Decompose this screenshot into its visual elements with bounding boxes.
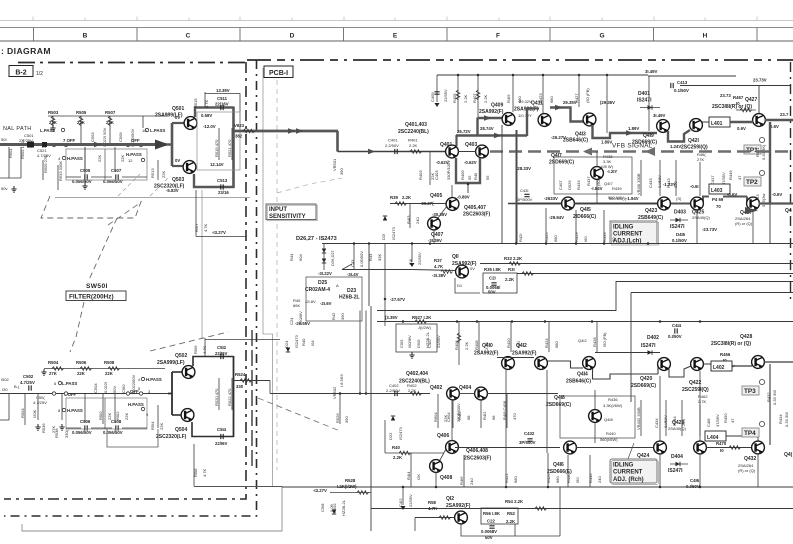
arrow 1.89V bbox=[626, 130, 634, 136]
svg-text:R436: R436 bbox=[608, 397, 618, 402]
svg-text:Q420: Q420 bbox=[640, 376, 652, 382]
resistor R440 bbox=[600, 431, 618, 442]
svg-text:Q42I: Q42I bbox=[688, 138, 699, 144]
resistor R511 vertical label bbox=[120, 155, 125, 162]
resistor R444 vert bbox=[672, 416, 686, 426]
VR401 vertical bbox=[636, 160, 641, 196]
transistor Q405 bbox=[446, 198, 459, 211]
svg-text:C503: C503 bbox=[90, 132, 95, 142]
svg-text:R5I4: R5I4 bbox=[150, 421, 155, 430]
resistor R518 vert bbox=[193, 444, 207, 486]
svg-text:R4I2: R4I2 bbox=[482, 411, 487, 420]
svg-text:R515: R515 bbox=[193, 98, 198, 108]
diode D21 vert bbox=[381, 216, 396, 240]
svg-text:L.PASS: L.PASS bbox=[40, 128, 55, 133]
ground under box bbox=[409, 352, 414, 358]
svg-text:1/2: 1/2 bbox=[36, 71, 43, 77]
svg-text:R5I7: R5I7 bbox=[194, 223, 199, 232]
svg-text:0V: 0V bbox=[470, 266, 475, 271]
resistor R510L vertical label bbox=[97, 155, 102, 162]
svg-text:Q402,404: Q402,404 bbox=[406, 371, 428, 377]
wire Q405-Q407 bbox=[438, 206, 447, 218]
wire R407col to Q413 bbox=[606, 75, 608, 133]
svg-text:50V: 50V bbox=[488, 290, 496, 295]
arrow to Q409 bbox=[484, 115, 492, 121]
outer lower box bbox=[107, 429, 158, 447]
svg-text:22K: 22K bbox=[161, 171, 166, 178]
Q424 emitter drop bbox=[659, 454, 661, 487]
transistor Q427 bbox=[753, 114, 766, 127]
svg-text:22/16V: 22/16V bbox=[215, 102, 229, 107]
svg-text:Q4I2: Q4I2 bbox=[516, 343, 527, 349]
svg-text:I0: I0 bbox=[720, 448, 724, 453]
cap C409 column bbox=[430, 75, 448, 107]
lower wires bbox=[0, 394, 147, 428]
zener box bbox=[306, 277, 362, 321]
svg-text:0.I/50V: 0.I/50V bbox=[668, 334, 682, 339]
TP3 test point bbox=[742, 379, 765, 395]
emitter col R411 bbox=[473, 173, 490, 180]
grid reference band bbox=[0, 28, 793, 42]
horizontal link y486 bbox=[194, 486, 282, 488]
cap C507 bbox=[103, 168, 123, 184]
resistor R513 vertical bbox=[150, 160, 166, 180]
cap C521 bbox=[37, 142, 51, 158]
svg-text:C4I4: C4I4 bbox=[672, 323, 682, 328]
wire vertical x85 bbox=[84, 147, 86, 183]
base col caps C403 bbox=[418, 152, 451, 185]
svg-text:27K: 27K bbox=[697, 157, 704, 162]
cap C21 bbox=[486, 276, 501, 295]
resistor R453 vertical bbox=[755, 194, 766, 207]
resistor R401 bbox=[408, 138, 422, 154]
VFB signal dashed trace bbox=[490, 150, 793, 153]
svg-text:R44: R44 bbox=[289, 253, 294, 261]
svg-text:2SD669(C): 2SD669(C) bbox=[549, 160, 574, 166]
svg-text:D402: D402 bbox=[647, 335, 659, 341]
rail 31.49V bbox=[645, 69, 736, 76]
svg-text:IS247I: IS247I bbox=[668, 468, 683, 474]
resistor R432 vertical bbox=[766, 390, 777, 405]
svg-text:560(I/6W): 560(I/6W) bbox=[600, 437, 618, 442]
svg-text:IS2473: IS2473 bbox=[391, 227, 396, 240]
svg-text:28.74V: 28.74V bbox=[480, 126, 494, 131]
svg-text:-12.0V: -12.0V bbox=[203, 124, 216, 129]
transistor Q418 bbox=[589, 410, 602, 423]
top loop bbox=[193, 357, 234, 367]
transistor Q422 bbox=[691, 358, 704, 371]
wire Q401-Q403 bbox=[458, 151, 476, 153]
VR502 labels bbox=[332, 374, 344, 399]
wire Q422-L402 bbox=[703, 363, 711, 365]
resistor R405 column bbox=[452, 75, 468, 132]
svg-text:Q427: Q427 bbox=[745, 97, 757, 103]
R56 box bbox=[481, 508, 518, 524]
cap C604 vert bbox=[446, 403, 461, 422]
switch H.PASS bbox=[58, 408, 83, 413]
svg-text:680: 680 bbox=[549, 96, 554, 103]
svg-text:-0.6I: -0.6I bbox=[690, 184, 699, 189]
svg-text:(R) or (Q): (R) or (Q) bbox=[738, 468, 756, 473]
thick feedback seg bbox=[456, 134, 527, 136]
resistor R526 vert bbox=[335, 392, 349, 424]
wire bias feed down bbox=[201, 190, 203, 339]
thick collector loop top bbox=[195, 108, 234, 118]
svg-text:22/I6V: 22/I6V bbox=[215, 351, 228, 356]
col R426 bbox=[546, 453, 560, 487]
svg-text:I2K: I2K bbox=[416, 474, 421, 480]
resistor R504b vert bbox=[20, 394, 37, 425]
wire Q405 up bbox=[451, 185, 453, 197]
svg-text:2SA999(LF): 2SA999(LF) bbox=[157, 360, 185, 366]
transistor Q12 bbox=[455, 511, 468, 524]
resistor R413 vert bbox=[406, 204, 420, 228]
switch box right bbox=[105, 149, 147, 180]
ground 50v bbox=[1, 186, 17, 192]
svg-text:4.7K: 4.7K bbox=[202, 468, 207, 477]
stub to Q502 bbox=[172, 371, 182, 373]
svg-text:R403: R403 bbox=[418, 170, 423, 180]
vertical bus x516 bbox=[516, 130, 518, 243]
wire y240 right bbox=[660, 243, 793, 245]
wire R517 branch bbox=[194, 190, 246, 237]
svg-text:22K: 22K bbox=[124, 413, 129, 420]
transistor Q423 bbox=[658, 197, 671, 210]
inductor L403 box bbox=[709, 184, 730, 194]
wires VAS2 verticals bbox=[595, 390, 700, 443]
svg-text:H.PASS: H.PASS bbox=[146, 377, 162, 382]
junction dots on rail bbox=[457, 74, 460, 77]
svg-text:Q4I4: Q4I4 bbox=[577, 372, 588, 378]
svg-text:Q404: Q404 bbox=[459, 385, 471, 391]
label Q431 type bbox=[735, 216, 753, 226]
svg-text:R533 330K: R533 330K bbox=[58, 161, 63, 181]
svg-text:0.(5)3w: 0.(5)3w bbox=[761, 194, 766, 207]
thin frame vertical bbox=[263, 68, 273, 486]
svg-text:R449: R449 bbox=[728, 170, 733, 180]
wire y536 bbox=[515, 535, 560, 537]
svg-text:2.2K: 2.2K bbox=[409, 143, 418, 148]
wire Q404 out bbox=[487, 393, 558, 395]
wire top out bbox=[205, 339, 280, 341]
svg-text:-1.94V: -1.94V bbox=[626, 196, 639, 201]
svg-text:60: 60 bbox=[611, 237, 616, 242]
switch L.PASS bbox=[54, 381, 77, 386]
svg-text:Q502: Q502 bbox=[175, 353, 187, 359]
svg-text:F: F bbox=[496, 32, 500, 39]
diode D22 vert bbox=[388, 416, 403, 440]
transistor Q432 bbox=[752, 441, 765, 454]
transistor Q419 bbox=[657, 120, 670, 133]
transistor Q403 bbox=[476, 145, 489, 158]
wire x385 bbox=[384, 244, 386, 327]
switch OFF upper bbox=[52, 138, 75, 147]
col R422 bbox=[504, 453, 518, 487]
resistor R424 vert bbox=[544, 322, 559, 353]
svg-text:QII: QII bbox=[452, 254, 459, 260]
transistor Q407 bbox=[428, 217, 441, 230]
wire Q406-Q408 bbox=[440, 449, 446, 460]
ground R504 bbox=[41, 369, 46, 375]
TP2 test point bbox=[744, 170, 765, 186]
svg-text:D24: D24 bbox=[284, 340, 289, 348]
svg-text:R522 470: R522 470 bbox=[227, 388, 232, 406]
svg-text:390: 390 bbox=[339, 168, 344, 175]
svg-text:IS2473: IS2473 bbox=[398, 427, 403, 440]
cap C24 vert bbox=[289, 311, 303, 325]
svg-text:G: G bbox=[599, 32, 604, 39]
corner wire A bbox=[377, 282, 793, 311]
cap C504 vert bbox=[93, 381, 117, 393]
PCB-I label box bbox=[264, 66, 293, 78]
svg-text:C417: C417 bbox=[710, 175, 715, 185]
thick bus drop right bbox=[769, 204, 771, 243]
left block edge bbox=[370, 306, 372, 531]
thick right rail bbox=[232, 107, 235, 189]
svg-text:D1: D1 bbox=[457, 283, 463, 288]
svg-text:IS247I: IS247I bbox=[641, 343, 656, 349]
svg-text:240: 240 bbox=[469, 478, 474, 485]
top ruler line bbox=[0, 17, 793, 21]
svg-text:R39: R39 bbox=[390, 195, 398, 200]
resistor R527 bbox=[412, 315, 432, 323]
rail y487 bbox=[282, 486, 793, 488]
svg-text:D: D bbox=[290, 32, 295, 39]
svg-text:0.0068V: 0.0068V bbox=[481, 529, 497, 534]
svg-text:Q406,408: Q406,408 bbox=[466, 448, 488, 454]
svg-text:Q423: Q423 bbox=[645, 208, 657, 214]
wire driver row2 bbox=[455, 447, 560, 449]
svg-text:C511: C511 bbox=[217, 96, 228, 101]
cap C504b bbox=[33, 395, 47, 405]
resistor R522 vert bbox=[227, 378, 232, 410]
svg-text:23.73V: 23.73V bbox=[753, 78, 767, 83]
svg-text:22K: 22K bbox=[97, 155, 102, 162]
svg-text:(S): (S) bbox=[676, 196, 682, 201]
svg-text:470: 470 bbox=[512, 413, 517, 420]
svg-text:2.2K: 2.2K bbox=[402, 195, 412, 200]
wire lower links bbox=[0, 147, 147, 178]
dashed pointer diag bbox=[277, 178, 342, 193]
svg-text:L401: L401 bbox=[711, 121, 723, 127]
thick riser x477 bbox=[476, 118, 478, 137]
svg-text:Q424: Q424 bbox=[637, 453, 649, 459]
svg-text:C432: C432 bbox=[524, 431, 535, 436]
switch OFF mid bbox=[126, 386, 151, 395]
resistor R504 bbox=[48, 360, 64, 376]
svg-text:H.PASS: H.PASS bbox=[128, 402, 144, 407]
wire 13.39V bbox=[205, 94, 240, 130]
exit double arrows bbox=[288, 128, 296, 134]
VR402 vert bbox=[636, 400, 641, 436]
supply rail y85 bbox=[437, 74, 648, 76]
cap C413 bbox=[671, 80, 689, 93]
resistor R402 bbox=[407, 383, 422, 395]
svg-text:-0.62V: -0.62V bbox=[464, 160, 477, 165]
svg-text:68: 68 bbox=[491, 415, 496, 420]
TP4 test point bbox=[742, 421, 765, 437]
svg-text:IDLING: IDLING bbox=[613, 463, 634, 469]
svg-text:4.7/25V: 4.7/25V bbox=[20, 380, 35, 385]
cap C510 vert bbox=[121, 374, 136, 393]
svg-text:R507: R507 bbox=[105, 110, 116, 115]
svg-text:R429: R429 bbox=[574, 232, 579, 242]
svg-text:2SC259I(Q): 2SC259I(Q) bbox=[681, 145, 708, 151]
svg-text:4.7/25V: 4.7/25V bbox=[33, 400, 47, 405]
svg-text:IS2473: IS2473 bbox=[294, 335, 299, 348]
svg-text:I50: I50 bbox=[575, 477, 580, 483]
svg-text:E: E bbox=[393, 32, 398, 39]
svg-text:390: 390 bbox=[344, 416, 349, 423]
resistor R39 bbox=[390, 195, 412, 205]
svg-text:23/16: 23/16 bbox=[218, 190, 229, 195]
thick right bus down bbox=[769, 122, 771, 203]
svg-text:4.7K: 4.7K bbox=[203, 223, 208, 232]
svg-text:SENSITIVITY: SENSITIVITY bbox=[269, 214, 306, 220]
bias box Q418 bbox=[560, 396, 635, 438]
svg-text:-27.57V: -27.57V bbox=[390, 297, 405, 302]
svg-text:33K: 33K bbox=[377, 254, 382, 261]
svg-text:1/0.72Y: 1/0.72Y bbox=[518, 113, 532, 118]
wire out to VR502 bbox=[270, 393, 430, 395]
wire x385 low bbox=[384, 420, 386, 453]
resistor R528 bbox=[337, 478, 369, 494]
svg-text:B-2: B-2 bbox=[15, 69, 26, 76]
wire Q408 down bbox=[435, 472, 437, 487]
svg-text:2SB646(C): 2SB646(C) bbox=[563, 138, 588, 144]
thick out right lower bbox=[759, 202, 793, 204]
svg-text:2SA992(F): 2SA992(F) bbox=[512, 351, 537, 357]
resistor R428 vert bbox=[592, 322, 607, 353]
transistor Q425 bbox=[691, 197, 704, 210]
svg-text:B: B bbox=[83, 32, 88, 39]
svg-text:R422: R422 bbox=[504, 473, 509, 483]
cap C506 bbox=[72, 419, 92, 435]
svg-text:23.7: 23.7 bbox=[780, 112, 789, 117]
svg-text:Q405,407: Q405,407 bbox=[464, 205, 486, 211]
cap C511 on top loop bbox=[215, 96, 229, 110]
inner solid boundary bbox=[251, 330, 253, 470]
svg-text:680: 680 bbox=[513, 476, 518, 483]
svg-text:0V: 0V bbox=[175, 158, 180, 163]
resistor R514 vert bbox=[150, 405, 164, 430]
label R45 bbox=[293, 298, 316, 308]
vertical x369 upper bbox=[368, 244, 370, 307]
cap C433 vertical bbox=[648, 160, 662, 196]
thin dashed vertical bbox=[276, 80, 278, 470]
wire mid right bbox=[269, 381, 271, 394]
svg-text:H.PASS: H.PASS bbox=[126, 152, 142, 157]
svg-text:47/35V: 47/35V bbox=[721, 172, 726, 185]
resistor R502 vertical bbox=[20, 139, 25, 168]
svg-text:I60: I60 bbox=[583, 236, 588, 242]
diode D502 vert bbox=[332, 503, 337, 514]
resistor R43 vert bbox=[368, 253, 382, 261]
VFB left arrow a bbox=[583, 148, 592, 156]
wire Q409 bus down bbox=[501, 125, 503, 243]
svg-text:R42: R42 bbox=[331, 312, 336, 320]
wire R528 bbox=[330, 492, 371, 494]
thick driver row segs bbox=[516, 197, 747, 204]
resistor R501 vertical bbox=[8, 147, 13, 168]
svg-text:R503: R503 bbox=[48, 110, 59, 115]
resistor R410 vert bbox=[453, 400, 471, 428]
svg-text:C5I8: C5I8 bbox=[320, 503, 325, 512]
horizontal chain top right bbox=[247, 59, 793, 61]
thick stub to Q503 bbox=[172, 165, 183, 167]
label Q432 type bbox=[738, 463, 756, 473]
wire y517 bbox=[415, 517, 455, 519]
junction dots y393 bbox=[359, 392, 362, 395]
svg-text:2SD669(C): 2SD669(C) bbox=[546, 402, 571, 408]
svg-text:382: 382 bbox=[235, 134, 243, 139]
svg-text:50V: 50V bbox=[112, 386, 117, 393]
svg-text:D4I5: D4I5 bbox=[676, 232, 686, 237]
svg-text:R428: R428 bbox=[592, 337, 597, 347]
svg-text:C409: C409 bbox=[430, 92, 435, 102]
svg-text:2SC2320(LF): 2SC2320(LF) bbox=[156, 434, 187, 440]
resistor R44 vert bbox=[289, 244, 303, 269]
svg-text:R527 I.2K: R527 I.2K bbox=[412, 315, 432, 320]
svg-text:R439: R439 bbox=[612, 186, 622, 191]
svg-text:47: 47 bbox=[730, 418, 735, 423]
svg-text:R434: R434 bbox=[778, 414, 783, 424]
svg-text:R505: R505 bbox=[76, 110, 87, 115]
switch L.PASS upper bbox=[40, 128, 65, 133]
svg-text:: DIAGRAM: : DIAGRAM bbox=[1, 46, 51, 56]
transistor Q504 bbox=[181, 409, 194, 422]
svg-text:CURRENT: CURRENT bbox=[613, 232, 643, 238]
resistor P469 bbox=[712, 197, 724, 209]
svg-text:R35 I.8K: R35 I.8K bbox=[484, 267, 502, 272]
inner thin box bbox=[197, 112, 240, 170]
resistor R420 vert bbox=[506, 322, 521, 353]
svg-text:2SC2240(BL): 2SC2240(BL) bbox=[398, 129, 429, 135]
svg-text:C5I2: C5I2 bbox=[217, 345, 227, 350]
svg-text:-28.33V: -28.33V bbox=[516, 166, 531, 171]
vertical chain PCB left 1 bbox=[4, 62, 246, 499]
resistor R507 bbox=[105, 110, 116, 125]
rail y263 bbox=[480, 263, 793, 265]
VFB left arrow b bbox=[645, 147, 655, 156]
svg-text:-0.6V: -0.6V bbox=[727, 192, 737, 197]
cap C512 bbox=[215, 345, 228, 359]
svg-text:D404: D404 bbox=[671, 454, 683, 460]
svg-text:C4I0: C4I0 bbox=[427, 339, 432, 348]
svg-text:R42I: R42I bbox=[518, 234, 523, 242]
svg-text:C507: C507 bbox=[111, 168, 122, 173]
svg-text:2SD669(C): 2SD669(C) bbox=[631, 383, 656, 389]
resistor R470 bbox=[706, 441, 752, 453]
svg-text:0.33 3W: 0.33 3W bbox=[784, 412, 789, 427]
svg-text:Q4I2: Q4I2 bbox=[578, 338, 587, 343]
svg-text:L.PASS: L.PASS bbox=[62, 381, 77, 386]
svg-text:R4I4: R4I4 bbox=[406, 471, 411, 480]
svg-text:1.89V: 1.89V bbox=[628, 126, 639, 131]
resistor R416 vert bbox=[459, 455, 474, 487]
INPUT SENSITIVITY box bbox=[266, 204, 317, 221]
svg-text:I30: I30 bbox=[2, 387, 8, 392]
inductor L401 box bbox=[709, 117, 730, 127]
wire y203 bbox=[390, 203, 446, 205]
transistor Q424 bbox=[654, 441, 667, 454]
resistor R436 bbox=[603, 397, 623, 408]
svg-text:R433: R433 bbox=[602, 232, 607, 242]
right edge chain bbox=[790, 62, 792, 300]
svg-text:26.72V: 26.72V bbox=[457, 129, 471, 134]
svg-text:12: 12 bbox=[128, 158, 133, 163]
svg-text:22K: 22K bbox=[105, 371, 114, 376]
